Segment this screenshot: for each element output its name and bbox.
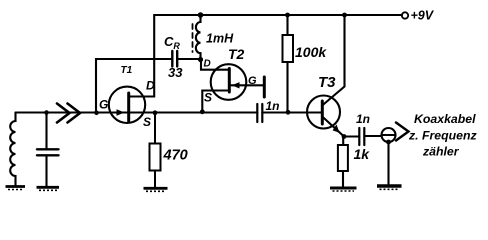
- svg-text:100k: 100k: [295, 44, 327, 60]
- svg-text:z. Frequenz: z. Frequenz: [408, 129, 477, 143]
- svg-text:T1: T1: [121, 65, 133, 76]
- svg-text:T3: T3: [318, 74, 336, 91]
- svg-text:S: S: [143, 115, 151, 129]
- svg-text:470: 470: [163, 148, 188, 164]
- svg-text:1mH: 1mH: [206, 32, 234, 46]
- svg-text:S: S: [204, 91, 212, 105]
- svg-text:Koaxkabel: Koaxkabel: [414, 112, 476, 126]
- svg-text:33: 33: [168, 65, 183, 80]
- svg-text:D: D: [146, 79, 155, 93]
- svg-text:1k: 1k: [354, 146, 371, 162]
- svg-text:zähler: zähler: [422, 145, 460, 159]
- svg-text:D: D: [204, 59, 211, 70]
- svg-text:+9V: +9V: [411, 9, 435, 23]
- svg-text:T2: T2: [228, 46, 245, 62]
- svg-text:1n: 1n: [266, 99, 280, 113]
- svg-text:G: G: [248, 75, 257, 87]
- svg-text:1n: 1n: [356, 112, 370, 126]
- svg-text:G: G: [99, 98, 108, 112]
